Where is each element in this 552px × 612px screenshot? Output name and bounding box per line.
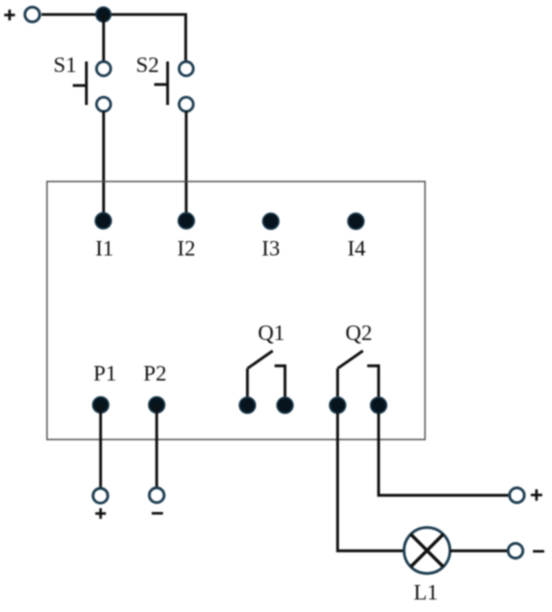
svg-text:P2: P2 (143, 361, 166, 386)
svg-text:Q1: Q1 (258, 320, 285, 345)
wire S1 to I1 (102, 111, 105, 221)
relay contact Q2 (330, 320, 387, 413)
svg-text:I2: I2 (177, 236, 195, 261)
wire S2 to I2 (185, 111, 188, 221)
node P2 (149, 397, 165, 413)
svg-text:I4: I4 (347, 236, 365, 261)
svg-text:L1: L1 (414, 580, 438, 605)
switch S1 (53, 52, 110, 111)
wire lamp to - terminal (450, 549, 508, 552)
wire junction to S1 (102, 15, 105, 62)
plus label out (531, 489, 542, 500)
terminal supply + (25, 7, 40, 22)
PLC box (47, 182, 425, 440)
svg-text:S2: S2 (136, 52, 159, 77)
svg-text:S1: S1 (53, 52, 76, 77)
node I4 (348, 213, 364, 229)
relay contact Q1 (239, 320, 293, 413)
node I3 (263, 213, 279, 229)
wire Q2 left to lamp (338, 413, 404, 551)
wire top rail (42, 15, 186, 62)
svg-text:I1: I1 (95, 236, 113, 261)
svg-text:P1: P1 (93, 361, 116, 386)
node I1 (95, 213, 111, 229)
wire Q2 right to + terminal (379, 413, 509, 495)
terminal out + (510, 488, 525, 503)
svg-text:Q2: Q2 (345, 320, 372, 345)
wire P1 down (99, 405, 102, 489)
node I2 (178, 213, 194, 229)
lamp L1 (404, 528, 450, 574)
terminal P1 + (93, 488, 108, 503)
node junction (96, 7, 111, 22)
terminal P2 - (149, 488, 164, 503)
minus label out (533, 550, 544, 553)
plus label left supply (4, 10, 15, 21)
svg-text:I3: I3 (262, 236, 280, 261)
plus label under P1 (95, 508, 106, 519)
switch S2 (136, 52, 193, 111)
node P1 (93, 397, 109, 413)
minus label under P2 (152, 512, 163, 515)
wire P2 down (155, 405, 158, 488)
terminal out - (508, 543, 523, 558)
